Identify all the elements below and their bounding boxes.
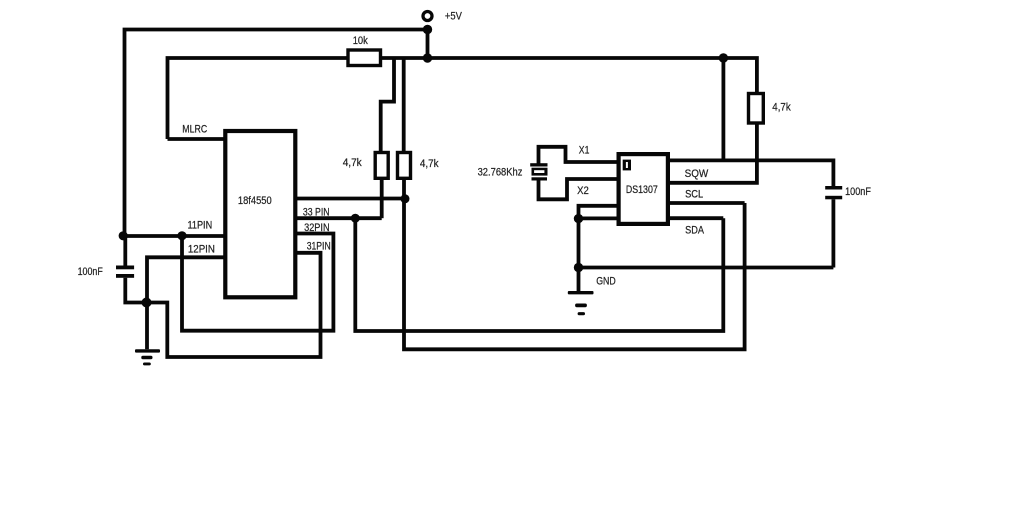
node F junction [142,298,152,308]
wire SCL pin stub [670,201,745,205]
node C junction [719,53,728,62]
svg-text:12PIN: 12PIN [188,244,215,256]
svg-text:X1: X1 [579,145,590,157]
resistor 4,7k right pullup [398,153,411,179]
svg-text:32PIN: 32PIN [304,222,330,234]
wire 5V rail2 left segment into 10k [168,58,349,139]
svg-text:SQW: SQW [685,168,709,180]
ground symbol right [568,291,594,315]
wire SQW to pullup R4 [670,123,757,183]
wire 11PIN [123,234,225,238]
capacitor C1 100nF plates [116,266,134,270]
wire GND rail [579,266,834,270]
svg-text:4,7k: 4,7k [772,101,791,113]
wire R2 bottom lead to SDA net [380,178,384,218]
svg-text:+5V: +5V [445,10,463,22]
svg-text:32.768Khz: 32.768Khz [478,166,523,178]
wire 32PIN loop to node E [182,234,333,331]
node I junction [574,214,583,223]
crystal 32.768Khz [530,163,547,180]
svg-text:X2: X2 [577,185,589,197]
svg-text:4,7k: 4,7k [343,157,363,169]
wire 12PIN vertical and into chip [147,257,225,349]
wire VCC drop from node C to DS1307 VCC rail [722,58,726,160]
node H junction [351,214,360,223]
wire DS1307 VCC to cap C2 top [670,160,833,186]
wire SDA from 18f4550 [297,216,382,220]
svg-text:100nF: 100nF [845,186,871,198]
node A junction [423,25,432,34]
node D junction [119,231,128,240]
svg-text:10k: 10k [353,35,369,47]
wire SDA branch down and across to DS1307 SDA [355,218,723,331]
wire DS1307 gnd pin lower [579,216,617,220]
pin 1 marker DS1307 [623,160,631,171]
svg-text:SDA: SDA [685,224,705,236]
svg-text:100nF: 100nF [78,266,104,278]
node J junction [574,263,583,272]
wire R3 top lead [402,58,406,153]
svg-text:GND: GND [596,276,616,288]
wire +5V stem [426,30,430,59]
IC U2 DS1307 [619,154,668,224]
svg-text:DS1307: DS1307 [626,184,658,196]
wire cap C1 top lead [123,236,127,266]
wire SCL from 18f4550 (33 PIN net) [297,197,406,201]
svg-text:4,7k: 4,7k [420,158,439,170]
wire R3 bottom lead down and across to DS1307 SCL [404,178,745,349]
wire +5V top rail and left drop [125,30,428,237]
wire cap C1 bottom lead to node F [125,278,146,303]
wire DS1307 gnd pin upper [579,206,617,219]
node G junction [401,194,410,203]
wire crystal X2 path [539,179,617,199]
ground symbol left [135,349,160,365]
wire R2 top lead with jog [381,58,394,153]
wire SDA pin stub [670,216,723,220]
node B junction [423,53,432,62]
wire MLRC [168,137,227,141]
wire cap C2 bottom to GND rail [832,199,836,267]
resistor 4,7k left pullup [375,153,388,179]
resistor 10k [348,50,381,66]
svg-text:SCL: SCL [685,189,703,201]
capacitor C2 100nF plates [825,186,842,190]
svg-text:11PIN: 11PIN [188,220,213,232]
resistor 4,7k SQW pullup [749,94,764,124]
wire 5V rail2 right of 10k to SQW pullup [380,58,757,94]
node E junction [177,231,186,240]
svg-text:18f4550: 18f4550 [238,195,272,207]
terminal +5V [423,12,432,21]
svg-text:MLRC: MLRC [182,123,207,135]
wire ground drop [577,219,581,291]
svg-text:31PIN: 31PIN [307,240,331,252]
wire crystal X1 path [539,147,617,164]
IC U1 18f4550 [225,131,295,297]
wire 31PIN loop to node F [147,253,321,357]
svg-text:33 PIN: 33 PIN [303,206,330,218]
